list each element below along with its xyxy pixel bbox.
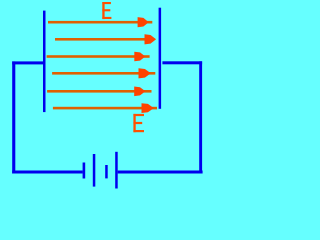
field line E4 <box>52 68 155 78</box>
field line E1 <box>48 17 152 27</box>
battery plate B1 short (negative) <box>83 163 86 179</box>
battery plate B2 long (positive) <box>93 154 96 187</box>
battery plate B3 short (negative) <box>105 165 108 178</box>
wire: battery to bottom right <box>118 171 203 174</box>
label E (top) <box>102 2 111 19</box>
wire: right rail to right plate <box>162 61 202 64</box>
field line E3 <box>47 52 150 62</box>
capacitor plate P2 (right) <box>159 8 162 109</box>
label E (bottom) <box>133 114 144 132</box>
wire: left rail down <box>12 61 15 173</box>
wire: right rail up <box>199 61 202 173</box>
field line E6 <box>53 103 157 113</box>
wire: bottom left to battery <box>12 171 82 174</box>
battery plate B4 long (positive) <box>115 152 118 189</box>
capacitor plate P1 (left) <box>43 11 46 113</box>
field line E5 <box>47 87 151 97</box>
wire: left plate to left rail <box>12 61 43 64</box>
field line E2 <box>55 34 156 44</box>
